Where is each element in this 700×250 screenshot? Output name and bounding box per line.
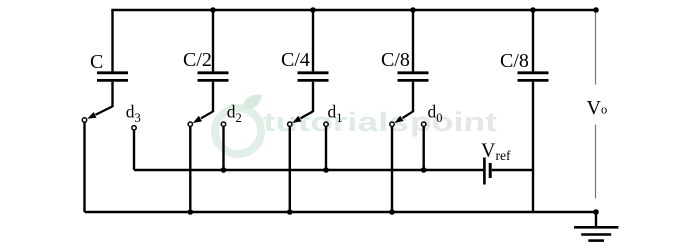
- switch d0 right contact: [422, 122, 426, 126]
- wire Vo upper: [595, 13, 597, 85]
- svg-text:C: C: [90, 51, 103, 73]
- wire branch5 to bottom rail: [532, 82, 534, 212]
- node bottom right: [593, 209, 599, 215]
- node bottom d0: [389, 209, 395, 215]
- wire branch3 below cap: [312, 82, 314, 112]
- ground bar3: [588, 239, 604, 242]
- wire d3 right to mid rail: [133, 130, 135, 170]
- switch d0 left contact: [390, 122, 394, 126]
- svg-text:d1: d1: [328, 102, 343, 125]
- wire mid rail left: [134, 169, 483, 171]
- svg-text:Vo: Vo: [587, 97, 608, 119]
- wire bottom rail: [85, 211, 597, 213]
- switch d3 arrowhead: [87, 112, 96, 119]
- node bottom d2: [188, 209, 194, 215]
- node top b4: [410, 7, 416, 13]
- node top b5: [530, 7, 536, 13]
- wire d1 right to mid rail: [325, 126, 327, 170]
- wire Vo lower: [595, 125, 597, 199]
- capacitor C3 plates: [298, 73, 329, 81]
- switch d2 arm: [201, 111, 213, 118]
- node top b2: [210, 7, 216, 13]
- node bottom d1: [287, 209, 293, 215]
- watermark leaf: [243, 95, 262, 109]
- svg-text:C/2: C/2: [183, 49, 212, 71]
- svg-text:Vref: Vref: [481, 140, 511, 164]
- wire d0 left to bottom rail: [391, 126, 393, 212]
- battery Vref long plate: [483, 158, 486, 185]
- switch d2 arrowhead: [193, 116, 202, 123]
- capacitor C2 plates: [198, 73, 229, 81]
- svg-text:d3: d3: [126, 102, 141, 125]
- switch d1 arm: [301, 111, 314, 118]
- svg-text:d0: d0: [428, 102, 443, 125]
- wire branch1 below cap: [111, 82, 113, 107]
- ground stub: [595, 212, 597, 227]
- wire branch5 top: [532, 10, 534, 71]
- svg-text:C/8: C/8: [500, 50, 529, 72]
- wire mid rail right: [492, 169, 533, 171]
- wire d2 right to mid rail: [222, 126, 224, 170]
- switch d2 left contact: [188, 122, 192, 126]
- capacitor C5 plates: [518, 73, 549, 81]
- switch d2 right contact: [221, 122, 225, 126]
- switch d1 left contact: [288, 122, 292, 126]
- ground bar1: [574, 226, 618, 229]
- wire branch4 below cap: [412, 82, 414, 112]
- wire d0 right to mid rail: [423, 126, 425, 170]
- switch d0 arrowhead: [394, 116, 403, 123]
- switch d3 arm: [96, 106, 113, 114]
- svg-text:C/4: C/4: [281, 49, 310, 71]
- node mid d0: [421, 167, 427, 173]
- wire branch4 top: [412, 10, 414, 71]
- wire branch2 below cap: [212, 82, 214, 112]
- switch d1 right contact: [324, 122, 328, 126]
- switch d1 arrowhead: [292, 116, 301, 123]
- wire branch3 top: [312, 10, 314, 71]
- wire top rail: [111, 9, 596, 11]
- node top b3: [310, 7, 316, 13]
- capacitor C4 plates: [398, 73, 429, 81]
- wire d2 left to bottom rail: [189, 126, 191, 212]
- switch d3 left contact: [82, 118, 86, 122]
- watermark logo ring: [215, 95, 262, 154]
- capacitor C1 plates: [97, 73, 128, 81]
- switch d0 arm: [403, 111, 414, 118]
- wire branch2 top: [212, 10, 214, 71]
- node mid d1: [323, 167, 329, 173]
- node top right: [593, 7, 599, 13]
- node mid d2: [221, 167, 227, 173]
- switch d3 right contact: [132, 126, 136, 130]
- wire branch1 top: [111, 10, 113, 71]
- wire d1 left to bottom rail: [289, 126, 291, 212]
- wire d3 left to bottom rail: [83, 122, 85, 212]
- battery Vref short plate: [489, 163, 492, 178]
- ground bar2: [581, 233, 611, 236]
- svg-text:C/8: C/8: [381, 49, 410, 71]
